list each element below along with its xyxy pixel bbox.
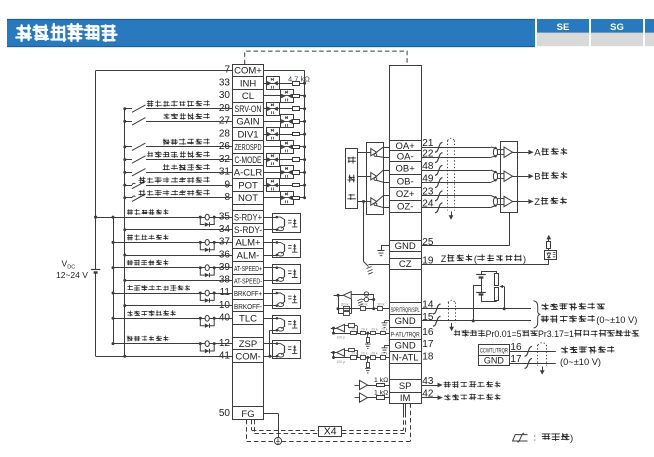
monitor output arrow — [421, 395, 443, 400]
twist mark example pair — [525, 346, 532, 368]
shield ground arrow SPR — [449, 323, 454, 331]
brace torque command — [534, 301, 541, 328]
pin 18 N-ATL — [390, 352, 422, 364]
svg-text:36: 36 — [219, 249, 231, 260]
resistor input SRV-ON — [293, 107, 307, 111]
pin 23 OZ+ — [390, 188, 422, 201]
wire output BRKOFF+ — [112, 292, 233, 295]
svg-text:(: ( — [474, 254, 477, 264]
frequency divider box — [346, 149, 358, 209]
svg-text:10 k: 10 k — [377, 302, 385, 307]
pin 24 OZ- — [390, 201, 422, 213]
pin 26 ZEROSPD — [219, 141, 264, 154]
label POT input — [139, 177, 146, 183]
svg-text:S-RDY+: S-RDY+ — [234, 212, 262, 223]
pin 32 C-MODE — [219, 154, 264, 166]
svg-text:9: 9 — [224, 179, 230, 190]
photocoupler input SRV-ON — [264, 103, 293, 116]
photocoupler output AT-SPEED — [264, 265, 301, 284]
line driver Z — [357, 196, 389, 208]
label 伺服报警输出 output — [127, 235, 132, 241]
svg-text:A: A — [534, 147, 541, 158]
svg-text:ALM-: ALM- — [237, 250, 260, 261]
pin 28 DIV1 — [219, 128, 264, 141]
photocoupler input C-MODE — [264, 154, 293, 167]
input switch A-CLR — [123, 169, 232, 176]
pin 39 AT-SPEED+ — [219, 262, 264, 275]
svg-text:25: 25 — [422, 237, 434, 248]
relay load AT-SPEED+ — [199, 265, 216, 277]
svg-text:AT-SPEED+: AT-SPEED+ — [234, 264, 262, 273]
photocoupler output TLC — [264, 316, 301, 357]
svg-text:B: B — [534, 171, 540, 182]
label ZEROSPD input — [163, 139, 170, 145]
wire output BRKOFF- — [123, 304, 232, 307]
resistor input A-CLR — [293, 171, 307, 175]
label A-CLR input — [163, 164, 170, 170]
tab SG — [591, 19, 643, 46]
input switch C-MODE — [123, 156, 232, 163]
svg-text:20 k: 20 k — [361, 327, 368, 331]
svg-text:20 k: 20 k — [371, 352, 378, 356]
pin 12 ZSP — [219, 338, 264, 350]
photocoupler input GAIN — [264, 115, 294, 128]
resistor input POT — [293, 184, 307, 187]
pin 29 SRV-ON — [219, 103, 264, 116]
pin 27 GAIN — [219, 116, 264, 128]
battery VDC 12-24V — [91, 264, 100, 357]
svg-text:BRKOFF-: BRKOFF- — [234, 302, 262, 311]
potentiometer torque command — [481, 271, 506, 310]
bus input resistors vertical — [304, 71, 306, 198]
svg-text:SRV-ON: SRV-ON — [235, 104, 262, 115]
wire output TLC — [112, 317, 233, 320]
svg-text:100 p: 100 p — [337, 360, 346, 364]
resistor input NOT — [293, 196, 307, 199]
svg-text:OZ+: OZ+ — [396, 189, 415, 200]
svg-text:20 k: 20 k — [361, 352, 368, 356]
relay load ZSP — [199, 341, 216, 354]
svg-text:P-ATL/TRQR: P-ATL/TRQR — [391, 331, 420, 338]
resistors SPR input — [338, 302, 389, 311]
svg-text:FG: FG — [241, 409, 254, 420]
relay load ALM+ — [199, 240, 216, 253]
wire GND 15 — [421, 320, 531, 322]
pin 35 S-RDY+ — [219, 211, 264, 224]
svg-text:20 k: 20 k — [371, 327, 378, 331]
wire output AT-SPEED+ — [112, 266, 233, 269]
svg-text:11: 11 — [220, 287, 231, 298]
label torque command input example — [560, 346, 614, 367]
resistor 1 kOhm — [374, 377, 389, 387]
label 速度到达输出 output — [127, 260, 133, 265]
photocoupler input CL — [264, 90, 294, 103]
svg-text:BRKOFF+: BRKOFF+ — [234, 289, 262, 298]
svg-text:1 kΩ: 1 kΩ — [374, 389, 388, 396]
svg-text:IM: IM — [400, 393, 411, 404]
svg-text:42: 42 — [422, 389, 434, 400]
shield ground arrow encoder — [449, 212, 454, 220]
svg-text:100 p: 100 p — [337, 336, 346, 340]
label C-MODE input — [147, 152, 152, 157]
shield dashed outer horizontal — [247, 441, 411, 443]
label GAIN input — [164, 114, 169, 119]
wire example 17 — [509, 363, 555, 365]
wire encoder pair B — [421, 170, 496, 183]
capacitor network SPR — [351, 292, 375, 309]
wire output ALM+ — [112, 241, 233, 244]
shield dotted example pair — [538, 343, 547, 366]
svg-text::: : — [534, 433, 537, 444]
twisted pair symbol Z — [493, 196, 497, 207]
connector label X4 — [319, 425, 342, 437]
input switch GAIN — [123, 118, 232, 125]
label torque command or speed limit input — [541, 303, 637, 325]
pin 36 ALM- — [219, 249, 264, 262]
ground hook GND 25 — [378, 246, 390, 256]
relay load BRKOFF+ — [199, 290, 216, 303]
svg-text:30: 30 — [219, 90, 231, 101]
legend label twisted pair — [534, 433, 574, 444]
svg-text:): ) — [523, 254, 526, 264]
pin 15 GND — [390, 315, 422, 328]
pin 22 OA- — [390, 151, 422, 163]
pin 31 A-CLR — [219, 166, 264, 179]
label monitor output — [444, 382, 451, 388]
svg-text:X4: X4 — [324, 425, 337, 437]
svg-text:14: 14 — [422, 300, 434, 311]
shield dashed line top — [245, 51, 407, 65]
resistor input GAIN — [293, 120, 307, 124]
pin 19 CZ — [390, 259, 422, 270]
svg-text:18: 18 — [422, 351, 434, 362]
svg-text:COM-: COM- — [235, 351, 260, 362]
svg-text:35: 35 — [219, 211, 231, 222]
shield dotted encoder cable — [448, 138, 455, 210]
svg-text:16: 16 — [422, 327, 434, 338]
svg-text:COM+: COM+ — [234, 66, 262, 77]
photocoupler input INH — [264, 77, 293, 90]
pin 50 FG — [219, 407, 264, 420]
svg-text:50: 50 — [219, 408, 231, 419]
svg-text:DIV1: DIV1 — [237, 129, 258, 140]
twisted pair symbol B — [493, 171, 497, 182]
pin 41 COM- — [219, 350, 264, 363]
page title bar — [7, 19, 535, 47]
photocoupler output ALM — [264, 240, 301, 258]
relay load S-RDY+ — [199, 214, 216, 226]
svg-text:NOT: NOT — [238, 193, 258, 204]
svg-text:CL: CL — [242, 91, 254, 102]
pin 37 ALM+ — [219, 237, 264, 249]
pin 9 POT — [224, 179, 263, 192]
monitor amp — [355, 393, 377, 402]
pin 14 SPR/TRQR/SPL — [390, 303, 422, 315]
photocoupler input NOT — [264, 192, 294, 205]
svg-text:41: 41 — [219, 350, 231, 361]
svg-text:20 k: 20 k — [381, 327, 388, 331]
shield dotted SPR pair — [448, 300, 456, 322]
wire SPR 14 — [421, 308, 531, 310]
svg-text:SE: SE — [557, 22, 570, 33]
output arrow A-phase — [513, 150, 534, 155]
connector X4 right column body — [390, 66, 422, 404]
pin 21 OA+ — [390, 141, 422, 152]
example connector box — [478, 342, 522, 366]
svg-text:20 k: 20 k — [351, 352, 358, 356]
filter capacitor N-ATL — [331, 349, 390, 373]
input switch POT — [123, 181, 232, 188]
monitor amp — [355, 380, 377, 389]
photocoupler output ZSP — [264, 341, 301, 359]
op-amp SPR input — [334, 292, 352, 316]
photocoupler input POT — [264, 179, 293, 192]
svg-text:INH: INH — [240, 78, 257, 89]
twist mark pair B — [435, 165, 443, 187]
pin 38 AT-SPEED- — [219, 275, 264, 287]
input switch SRV-ON — [123, 105, 232, 112]
bus VDC- bottom wire — [96, 356, 233, 358]
wire GND 25 to receiver box — [421, 213, 510, 246]
empty cell — [233, 325, 264, 338]
shield dashed outer right vertical — [410, 403, 412, 441]
filter capacitor P-ATL — [331, 324, 390, 349]
line receiver A — [498, 147, 513, 157]
svg-text:N-ATL: N-ATL — [392, 353, 419, 364]
wire output ZSP — [112, 342, 233, 345]
pin 33 INH — [219, 77, 264, 90]
svg-text:20 k: 20 k — [341, 302, 349, 307]
label 外部制动器解除输出 output — [128, 285, 133, 290]
bus switch-common vertical — [124, 109, 126, 357]
label 零速检出输出 output — [127, 336, 133, 342]
svg-text:1 kΩ: 1 kΩ — [374, 377, 388, 384]
line driver B — [357, 170, 389, 183]
pull-up circuit CZ — [545, 235, 557, 265]
label SRV-ON input — [147, 101, 153, 107]
pin 42 IM — [390, 393, 422, 404]
wire output S-RDY- — [123, 228, 232, 231]
svg-text:ZSP: ZSP — [239, 339, 257, 350]
bus VDC+ vertical — [95, 71, 97, 264]
svg-text:CZ: CZ — [399, 259, 412, 270]
wire COM+ to resistor bus — [264, 70, 305, 72]
label VDC — [56, 259, 88, 280]
svg-text:17: 17 — [422, 339, 434, 350]
twist mark pair A — [435, 142, 443, 162]
wire output ALM- — [123, 254, 232, 257]
cable dashed inner horizontals — [252, 431, 405, 434]
svg-text:POT: POT — [238, 180, 258, 191]
svg-text:OA-: OA- — [397, 152, 414, 163]
resistor input INH — [293, 82, 307, 86]
photocoupler output S-RDY — [264, 214, 301, 233]
svg-text:20 k: 20 k — [351, 327, 358, 331]
pin 30 CL — [219, 90, 264, 103]
label monitor output — [444, 394, 450, 400]
svg-text:A-CLR: A-CLR — [234, 168, 263, 179]
pin 48 OB+ — [390, 162, 422, 175]
bus outputs+ vertical — [113, 217, 115, 344]
tab edge sliver — [645, 19, 654, 46]
svg-text:ZEROSPD: ZEROSPD — [235, 143, 262, 152]
connector X4 left column body — [233, 65, 264, 420]
wire battery mid-tap to GND — [472, 285, 481, 322]
svg-text:TLC: TLC — [239, 314, 257, 325]
monitor output arrow — [421, 383, 443, 388]
photocoupler input ZEROSPD — [264, 141, 294, 154]
line driver box — [367, 143, 384, 215]
input switch ZEROSPD — [123, 143, 232, 150]
photocoupler output BRKOFF — [264, 290, 301, 309]
svg-text:15: 15 — [422, 312, 434, 323]
svg-text:SPR/TRQR/SPL: SPR/TRQR/SPL — [391, 307, 420, 314]
svg-text:Pr0.01=5: Pr0.01=5 — [486, 329, 522, 339]
svg-text:OB-: OB- — [397, 176, 414, 187]
wire CZ 19 — [421, 264, 549, 266]
svg-text:S-RDY-: S-RDY- — [234, 225, 262, 236]
line driver A — [357, 147, 389, 158]
svg-text:28: 28 — [219, 128, 231, 139]
svg-text:GND: GND — [395, 316, 416, 327]
output arrow B-phase — [513, 174, 534, 179]
pin 10 BRKOFF- — [219, 300, 264, 312]
svg-text:Pr3.17=1: Pr3.17=1 — [538, 329, 574, 339]
svg-text:Z: Z — [441, 254, 447, 264]
svg-text:SG: SG — [610, 22, 624, 33]
svg-text:OB+: OB+ — [396, 163, 416, 174]
resistor input ZEROSPD — [293, 145, 307, 148]
wire output S-RDY+ — [94, 216, 232, 219]
svg-text:12~24 V: 12~24 V — [56, 270, 88, 280]
relay load TLC — [199, 315, 216, 328]
svg-text:C-MODE: C-MODE — [235, 155, 262, 166]
wire OZ to CZ open collector — [362, 200, 389, 274]
cable dashed bottom right verticals — [404, 403, 406, 433]
svg-text:GAIN: GAIN — [236, 117, 259, 128]
shield ground arrow example — [540, 367, 545, 375]
label NOT input — [139, 190, 145, 196]
photocoupler input DIV1 — [264, 128, 293, 141]
pin 40 TLC — [219, 312, 264, 325]
pin 34 S-RDY- — [219, 224, 264, 237]
pin 11 BRKOFF+ — [220, 287, 264, 300]
svg-text:33: 33 — [219, 77, 231, 88]
resistor input CL — [293, 94, 307, 97]
pin 7 COM+ — [224, 65, 263, 77]
line receiver Z — [498, 196, 513, 206]
svg-text:GND: GND — [484, 355, 505, 365]
svg-text:SP: SP — [399, 381, 412, 392]
output arrow Z-phase — [513, 199, 534, 204]
protective earth symbol — [274, 437, 281, 444]
ground hook GND 15 — [382, 321, 390, 328]
svg-text:GND: GND — [395, 241, 416, 252]
svg-text:AT-SPEED-: AT-SPEED- — [234, 277, 262, 286]
wire COM+ to bus — [96, 70, 233, 72]
wire encoder pair A — [421, 147, 496, 158]
svg-text:OZ-: OZ- — [397, 202, 413, 213]
pin 8 NOT — [224, 192, 263, 205]
svg-text:Z: Z — [534, 197, 540, 208]
resistor 1 kOhm — [374, 389, 389, 399]
pin 25 GND — [390, 241, 422, 253]
line receiver B — [498, 171, 513, 181]
pin 16 P-ATL/TRQR — [390, 328, 422, 340]
pin 43 SP — [390, 380, 422, 393]
photocoupler input A-CLR — [264, 166, 294, 179]
svg-text:(0~±10 V): (0~±10 V) — [596, 315, 637, 325]
svg-text:ALM+: ALM+ — [235, 238, 261, 249]
svg-text:CCWTL/TRQR: CCWTL/TRQR — [480, 348, 508, 355]
pin 17 GND — [390, 340, 422, 352]
ground hook GND 17 — [382, 345, 390, 352]
pin 49 OB- — [390, 175, 422, 188]
twist mark SPR pair — [433, 304, 441, 326]
receiver box — [501, 142, 518, 213]
twisted pair symbol A — [493, 147, 497, 158]
input switch NOT — [123, 194, 232, 201]
resistor input DIV1 — [293, 133, 307, 136]
twist mark pair Z — [435, 191, 443, 213]
resistor input C-MODE — [293, 158, 307, 162]
svg-text:(0~±10 V): (0~±10 V) — [560, 357, 601, 367]
wire output AT-SPEED- — [123, 279, 232, 282]
wire example 16 — [509, 351, 555, 353]
shield dashed bottom left — [247, 420, 255, 442]
empty cell — [233, 205, 264, 211]
legend twisted pair symbol — [513, 433, 528, 442]
svg-text:GND: GND — [395, 341, 416, 352]
label wiring example note — [454, 330, 460, 336]
tab SE — [537, 19, 589, 46]
battery command source — [476, 271, 486, 301]
svg-text:): ) — [570, 433, 573, 444]
label 伺服准备输出 output — [127, 209, 132, 215]
wire encoder pair Z — [421, 196, 496, 208]
wire FG to earth — [264, 413, 279, 437]
label 转矩限制中输出 output — [127, 311, 132, 316]
